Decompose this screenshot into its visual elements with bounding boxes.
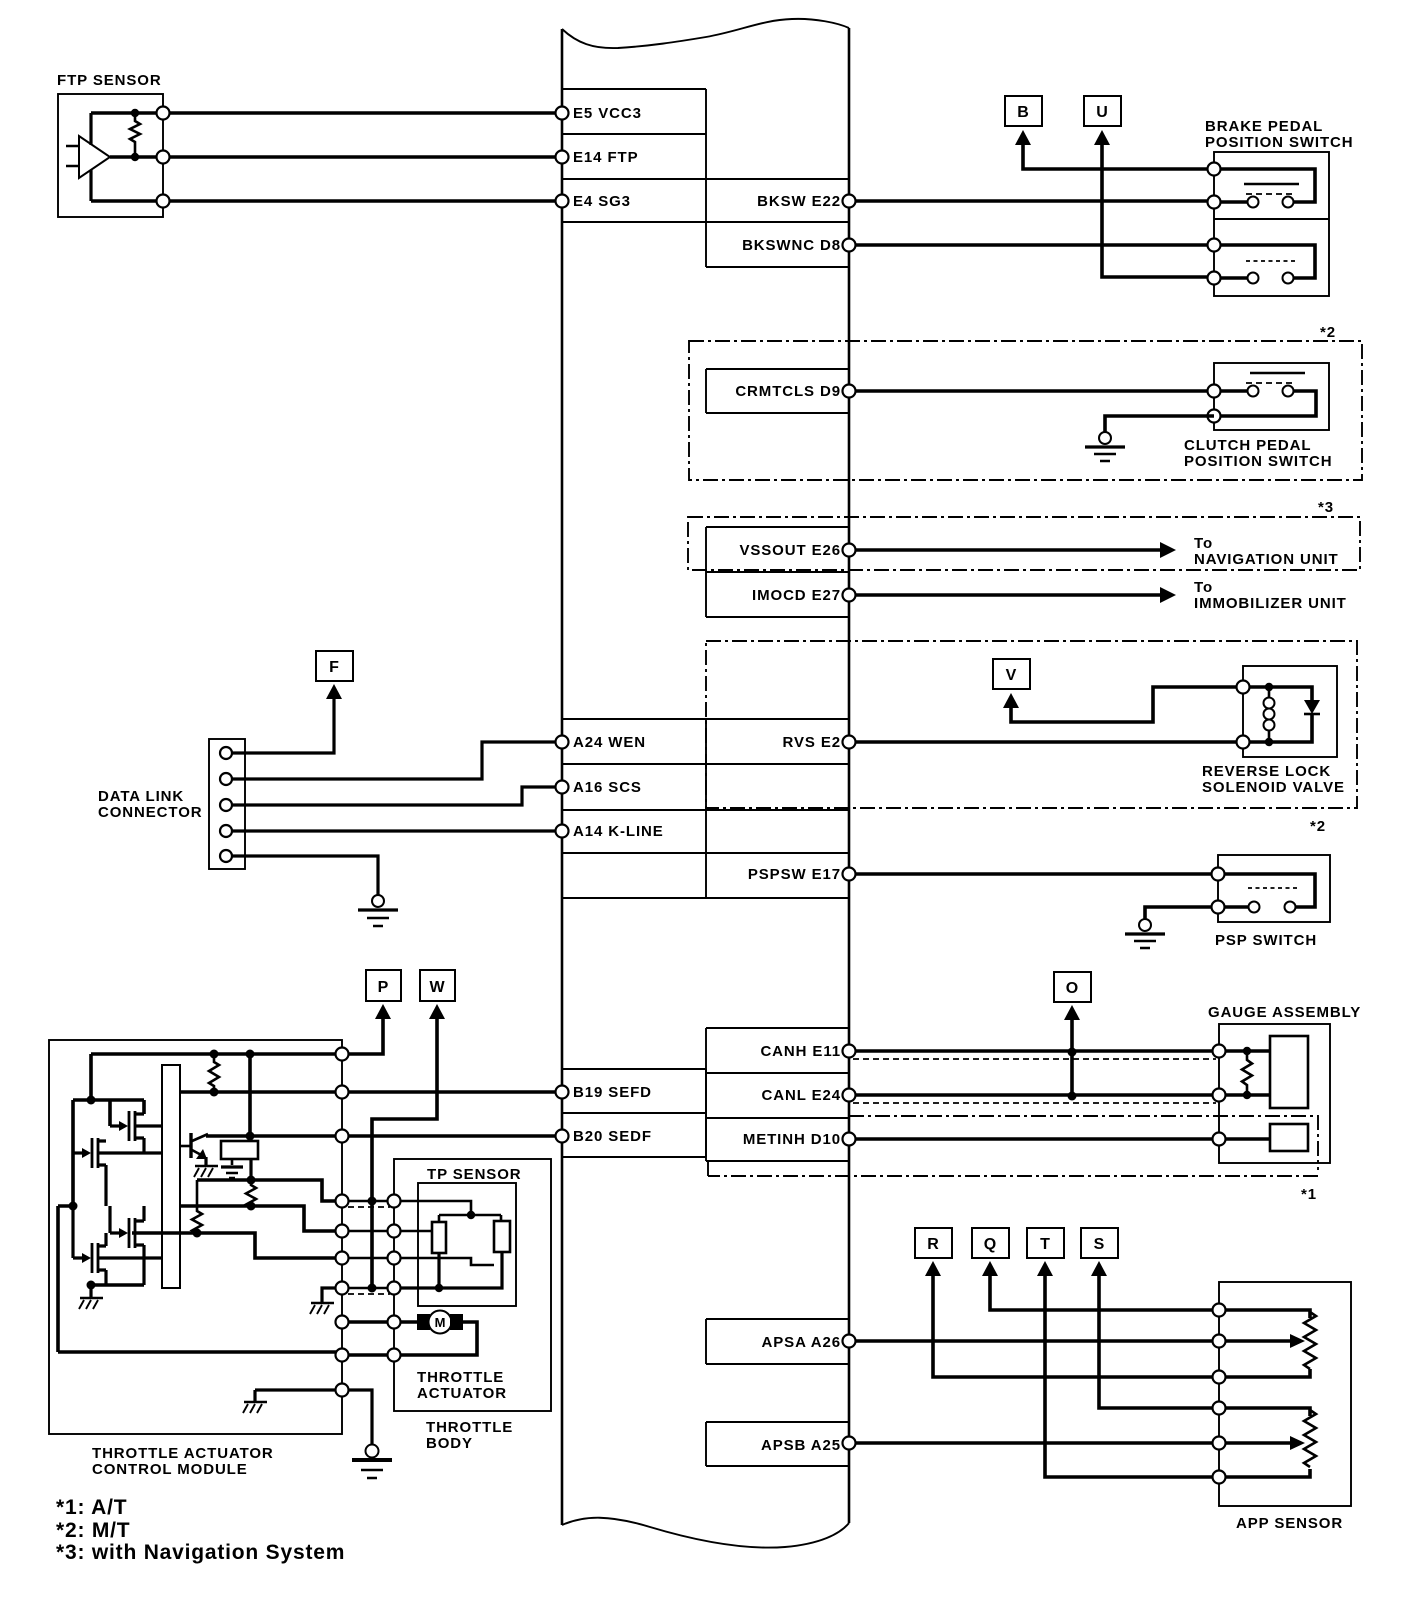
motor M1 throttle actuator: [394, 1311, 477, 1356]
transistor Q1: [191, 1133, 208, 1159]
svg-text:GAUGE ASSEMBLY: GAUGE ASSEMBLY: [1208, 1004, 1361, 1021]
svg-text:THROTTLE: THROTTLE: [426, 1419, 513, 1436]
svg-text:M: M: [435, 1315, 446, 1330]
svg-text:B19 SEFD: B19 SEFD: [573, 1084, 652, 1101]
svg-text:B: B: [1017, 104, 1029, 121]
ground main earth: [352, 1445, 392, 1479]
svg-text:*2: *2: [1310, 818, 1326, 835]
wire FTP: amp output to E14: [110, 155, 562, 159]
APP pot 1 track feed wires: [1219, 1310, 1310, 1377]
PSP switch contact circles: [1249, 902, 1260, 913]
terminal circle BKSWNC D8: [843, 239, 856, 252]
ground data link connector: [358, 895, 398, 926]
CANH pair dashed line: [853, 1058, 1216, 1060]
terminal circle A14 K-LINE: [556, 825, 569, 838]
svg-text:BKSW E22: BKSW E22: [757, 193, 841, 210]
svg-text:E4 SG3: E4 SG3: [573, 193, 631, 210]
clutch switch solid bar: [1250, 372, 1305, 375]
FTP amp bottom feed wire: [89, 170, 92, 201]
svg-text:IMMOBILIZER UNIT: IMMOBILIZER UNIT: [1194, 595, 1347, 612]
connector box P: [366, 970, 401, 1001]
wire DLC pin4 to A14 K-LINE: [226, 829, 562, 832]
APP sensor terminal circles: [1213, 1304, 1226, 1317]
terminal circle B20 SEDF: [556, 1130, 569, 1143]
terminal circle PSPSW E17: [843, 868, 856, 881]
wire module to TP row4: [342, 1287, 394, 1290]
wire CANL E24 to gauge: [849, 1093, 1219, 1097]
wire APSA A26 to APP sensor wiper 1: [849, 1339, 1219, 1343]
junction dot coil bottom: [1265, 738, 1273, 746]
TP wire row1 internal: [394, 1201, 501, 1222]
transistor M1 (FET): [110, 1111, 162, 1153]
svg-text:SOLENOID VALVE: SOLENOID VALVE: [1202, 779, 1345, 796]
svg-text:Q: Q: [984, 1236, 996, 1253]
gauge internal METINH wire: [1219, 1137, 1270, 1141]
wire APP pot2 low to T: [1045, 1275, 1219, 1477]
terminal circle BKSW E22: [843, 195, 856, 208]
FTP amp top feed wire: [89, 113, 92, 145]
svg-text:CONTROL MODULE: CONTROL MODULE: [92, 1461, 248, 1478]
svg-text:POSITION SWITCH: POSITION SWITCH: [1184, 453, 1333, 470]
wire APP pot1 low to R: [933, 1275, 1219, 1377]
ECM trunk bottom torn wavy edge: [562, 1518, 849, 1548]
wire W to TP sensor option rows: [372, 1018, 437, 1288]
module supply drop rail: [89, 1054, 93, 1100]
FTP internal resistor R: [130, 113, 140, 157]
transistor Q1 base wire: [180, 1145, 191, 1148]
terminal circle A16 SCS: [556, 781, 569, 794]
wire module to TP row3: [342, 1257, 394, 1260]
TP sensor box: [418, 1183, 516, 1306]
svg-text:*3: with Navigation System: *3: with Navigation System: [56, 1541, 345, 1564]
svg-text:*3: *3: [1318, 499, 1334, 516]
gauge assembly box: [1219, 1024, 1330, 1163]
svg-text:BRAKE PEDAL: BRAKE PEDAL: [1205, 118, 1323, 135]
arrow up to V: [1003, 693, 1019, 708]
FTP sensor amplifier triangle: [79, 136, 110, 178]
module terminal circles on right edge: [336, 1048, 349, 1061]
wire relay to TP row1 feed: [249, 1159, 252, 1180]
wire APP pot1 high to Q: [990, 1275, 1219, 1310]
solenoid terminal circles: [1237, 681, 1250, 694]
connector cell grid: E5/E14/E4 + BKSW/BKSWNC: [562, 89, 849, 267]
svg-text:CONNECTOR: CONNECTOR: [98, 804, 203, 821]
with-navigation dash-dot box: [688, 517, 1360, 570]
connector box R: [915, 1228, 952, 1258]
svg-text:APSB A25: APSB A25: [761, 1437, 841, 1454]
wire IMOCD to immobilizer unit: [849, 593, 1160, 597]
wire RVS E2 to solenoid: [849, 740, 1243, 744]
svg-text:*1: A/T: *1: A/T: [56, 1496, 127, 1519]
junction dot W tap row4: [368, 1284, 377, 1293]
terminal circle VSSOUT E26: [843, 544, 856, 557]
ground relay box: [221, 1167, 243, 1178]
TP wire row2 internal: [394, 1230, 432, 1233]
ECM trunk top torn wavy edge: [562, 19, 849, 48]
solenoid coil: [1268, 687, 1271, 697]
relay box ground stub: [231, 1159, 234, 1165]
module output node wire: [91, 1283, 144, 1287]
TP resistor element right: [494, 1221, 510, 1252]
data link connector box: [209, 739, 245, 869]
connector box B: [1005, 96, 1042, 126]
TP resistor element left: [432, 1222, 446, 1253]
upper brake switch internal link: [1214, 169, 1315, 202]
wire SG3: FTP sensor to E4: [91, 199, 562, 203]
PSP switch dotted contact line: [1248, 887, 1298, 889]
M/T option dash-dot box: [689, 341, 1362, 480]
terminal circle CRMTCLS D9: [843, 385, 856, 398]
wire clutch switch to ground: [1105, 416, 1214, 432]
connector box F: [316, 651, 353, 681]
MOSFET bridge left rails: [58, 1100, 144, 1352]
wire TP sensor feed row1: [197, 1180, 342, 1201]
upper switch dashed contact line: [1246, 193, 1296, 195]
connector box U: [1084, 96, 1121, 126]
brake switch terminal circles: [1208, 163, 1221, 176]
arrow up to U: [1094, 130, 1110, 145]
svg-text:F: F: [329, 659, 339, 676]
dashed option row4: [348, 1293, 390, 1295]
pin cell VSSOUT E26: [706, 527, 849, 617]
wire VSSOUT to navigation unit: [849, 548, 1160, 552]
chassis ground TP row4: [310, 1303, 334, 1314]
wire DLC pin1 to F: [226, 698, 334, 753]
terminal circle RVS E2: [843, 736, 856, 749]
svg-text:O: O: [1066, 980, 1078, 997]
throttle body box: [394, 1159, 551, 1411]
arrow up to B: [1015, 130, 1031, 145]
pin cells B19/B20: [562, 1069, 706, 1157]
wire TP row4 to chassis ground: [322, 1288, 342, 1302]
clutch switch contact circles: [1248, 386, 1259, 397]
terminal circle FTP sensor pin 1: [157, 107, 170, 120]
pin cell APSA A26: [706, 1319, 849, 1364]
module resistor R1: [209, 1054, 219, 1092]
wire Q1 emitter down: [204, 1157, 207, 1165]
lower switch dotted contact line: [1246, 260, 1296, 262]
wire module to motor -: [342, 1353, 394, 1357]
wire B19 SEFD module to ECM: [342, 1090, 562, 1094]
terminal circle E14: [556, 151, 569, 164]
svg-text:IMOCD E27: IMOCD E27: [752, 587, 841, 604]
module outer box: [49, 1040, 342, 1434]
svg-text:*2: M/T: *2: M/T: [56, 1519, 130, 1542]
clutch switch housing: [1214, 363, 1329, 430]
connector box O: [1054, 972, 1091, 1002]
dashed option row1: [348, 1206, 390, 1208]
TP wire row3 internal: [394, 1258, 494, 1265]
svg-text:B20 SEDF: B20 SEDF: [573, 1128, 652, 1145]
wire to connector U: [1102, 144, 1214, 277]
connector box T: [1027, 1228, 1064, 1258]
svg-text:To: To: [1194, 579, 1213, 596]
APP pot 1 wiper arrow: [1219, 1339, 1290, 1343]
svg-text:PSP SWITCH: PSP SWITCH: [1215, 932, 1317, 949]
connector box V: [993, 659, 1030, 689]
svg-text:E5 VCC3: E5 VCC3: [573, 105, 642, 122]
svg-text:APP SENSOR: APP SENSOR: [1236, 1515, 1343, 1532]
wire PSP switch to ground: [1145, 907, 1218, 919]
module resistor R2: [246, 1180, 256, 1208]
middle cell grid A24/A16/A14 + RVS/PSPSW: [562, 719, 849, 898]
svg-text:VSSOUT E26: VSSOUT E26: [739, 542, 841, 559]
wire module to TP row2: [342, 1230, 394, 1233]
terminal circle APSA A26: [843, 1335, 856, 1348]
svg-text:CANH E11: CANH E11: [760, 1043, 841, 1060]
svg-text:T: T: [1040, 1236, 1050, 1253]
terminal circle FTP sensor pin 2: [157, 151, 170, 164]
wire O tap into CAN bus: [1070, 1019, 1074, 1097]
connector box Q: [972, 1228, 1009, 1258]
APP sensor box: [1219, 1282, 1351, 1506]
svg-text:P: P: [378, 979, 389, 996]
terminal circle B19 SEFD: [556, 1086, 569, 1099]
gate bus bar strip: [162, 1065, 180, 1288]
PSP switch internal link: [1218, 874, 1315, 907]
ground clutch switch: [1085, 432, 1125, 461]
svg-text:CLUTCH PEDAL: CLUTCH PEDAL: [1184, 437, 1311, 454]
wire DLC pin5 to ground: [226, 856, 378, 895]
wire collector to B20 row: [206, 1134, 342, 1138]
wire APP pot2 high to S: [1099, 1275, 1219, 1408]
chassis ground Q1 emitter: [194, 1166, 218, 1177]
junction dot W tap row1: [368, 1197, 377, 1206]
wire BKSWNC D8 to switch: [849, 243, 1214, 247]
svg-text:CRMTCLS D9: CRMTCLS D9: [735, 383, 841, 400]
svg-text:ACTUATOR: ACTUATOR: [417, 1385, 507, 1402]
junction dot TP feed: [467, 1211, 475, 1219]
wire METINH D10 to gauge: [849, 1137, 1219, 1141]
svg-text:*2: *2: [1320, 324, 1336, 341]
PSP switch housing: [1218, 855, 1330, 922]
chassis ground M4: [79, 1298, 103, 1309]
brake switch housing: [1214, 152, 1329, 296]
svg-text:A14 K-LINE: A14 K-LINE: [573, 823, 664, 840]
gauge internal unit (meter inhibit): [1270, 1124, 1308, 1151]
svg-text:U: U: [1096, 104, 1108, 121]
pin cell APSB A25: [706, 1422, 849, 1466]
A/T option dash-dot lines (*1): [708, 1116, 1318, 1176]
terminal circle A24 WEN: [556, 736, 569, 749]
diode across solenoid: [1304, 700, 1320, 714]
wire to connector B: [1023, 144, 1214, 169]
ECM trunk right edge: [848, 28, 851, 1523]
lower switch contact circles: [1248, 273, 1259, 284]
wire BKSW E22 to switch: [849, 199, 1214, 203]
junction dot O-CANH: [1068, 1048, 1077, 1057]
svg-text:A16 SCS: A16 SCS: [573, 779, 642, 796]
APP potentiometer 2: [1304, 1410, 1316, 1467]
junction dot coil top: [1265, 683, 1273, 691]
svg-text:V: V: [1006, 667, 1017, 684]
module resistor R3: [192, 1180, 202, 1234]
svg-text:BKSWNC D8: BKSWNC D8: [742, 237, 841, 254]
throttle body terminal circles: [388, 1195, 401, 1208]
pin cells CANH/CANL/METINH: [706, 1028, 849, 1161]
TP wire row4 internal: [394, 1252, 502, 1288]
junction dot resistor top: [131, 109, 139, 117]
svg-text:TP SENSOR: TP SENSOR: [427, 1166, 522, 1183]
terminal circle CANH E11: [843, 1045, 856, 1058]
APP pot 2 wiper arrow: [1219, 1441, 1290, 1445]
upper switch contact circles: [1248, 197, 1259, 208]
svg-text:THROTTLE: THROTTLE: [417, 1369, 504, 1386]
arrow up to O: [1064, 1005, 1080, 1020]
connector box W: [420, 970, 455, 1001]
svg-text:THROTTLE ACTUATOR: THROTTLE ACTUATOR: [92, 1445, 274, 1462]
wire bus to driver collector: [248, 1054, 252, 1136]
relay coil box: [221, 1141, 258, 1159]
transistor M2 (FET): [73, 1138, 162, 1206]
APP potentiometer 1: [1304, 1312, 1316, 1369]
wire solenoid to connector V: [1011, 687, 1243, 722]
svg-text:A24 WEN: A24 WEN: [573, 734, 646, 751]
wire module to TP row1: [342, 1200, 394, 1203]
svg-text:METINH D10: METINH D10: [743, 1131, 841, 1148]
gauge internal CAN wires: [1219, 1051, 1270, 1095]
terminal circle E5: [556, 107, 569, 120]
PSP switch terminal circles: [1212, 868, 1225, 881]
wire PSPSW E17 to PSP switch: [849, 872, 1218, 876]
solenoid internal top wire: [1243, 687, 1312, 700]
M/T option dash-dot box: [706, 641, 1357, 808]
lower brake switch internal link: [1214, 245, 1315, 278]
terminal circle METINH D10: [843, 1133, 856, 1146]
junction dot O-CANL: [1068, 1092, 1077, 1101]
module internal B19 wire: [180, 1090, 342, 1094]
upper switch solid bar: [1244, 183, 1299, 186]
svg-text:CANL E24: CANL E24: [762, 1087, 841, 1104]
wire TP sense row2: [180, 1206, 342, 1231]
wire module supply to P: [342, 1018, 383, 1054]
terminal circle APSB A25: [843, 1437, 856, 1450]
svg-text:W: W: [429, 979, 445, 996]
wire DLC pin2 to A24 WEN: [226, 742, 562, 779]
svg-text:NAVIGATION UNIT: NAVIGATION UNIT: [1194, 551, 1339, 568]
CANL pair dashed line: [853, 1102, 1216, 1104]
terminal circle FTP sensor pin 3: [157, 195, 170, 208]
module ground row wire: [255, 1390, 372, 1445]
clutch switch terminal circles: [1208, 385, 1221, 398]
chassis ground module left: [243, 1390, 267, 1413]
transistor M4 (FET): [73, 1206, 162, 1285]
terminal circle CANL E24: [843, 1089, 856, 1102]
FTP amp input stubs: [66, 146, 79, 166]
terminal circle IMOCD E27: [843, 589, 856, 602]
svg-text:FTP SENSOR: FTP SENSOR: [57, 72, 162, 89]
ground PSP switch: [1125, 919, 1165, 948]
svg-text:R: R: [927, 1236, 939, 1253]
clutch switch internal link: [1214, 391, 1316, 416]
svg-text:S: S: [1094, 1236, 1105, 1253]
clutch switch dashed contact line: [1246, 382, 1296, 384]
FTP sensor box: [58, 94, 163, 217]
wire TP sense row3: [132, 1233, 342, 1258]
gauge terminal circles: [1213, 1045, 1226, 1058]
svg-text:RVS E2: RVS E2: [783, 734, 842, 751]
svg-text:To: To: [1194, 535, 1213, 552]
reverse lock solenoid valve box: [1243, 666, 1337, 757]
svg-text:BODY: BODY: [426, 1435, 473, 1452]
wire motor return row: [58, 1350, 342, 1354]
wire M4 source to ground: [89, 1285, 92, 1297]
wire CANH E11 to gauge: [849, 1049, 1219, 1053]
transistor M3 (FET): [110, 1206, 144, 1285]
wire B20 SEDF module to ECM: [342, 1134, 562, 1138]
junction dot supply rail: [87, 1096, 96, 1105]
APP pot 2 track feed wires: [1219, 1408, 1310, 1477]
wire CRMTCLS D9 to clutch switch: [849, 389, 1214, 393]
svg-text:REVERSE LOCK: REVERSE LOCK: [1202, 763, 1331, 780]
junction dot resistor bottom: [131, 153, 139, 161]
svg-text:PSPSW E17: PSPSW E17: [748, 866, 841, 883]
gauge terminating resistor: [1242, 1051, 1252, 1095]
svg-text:DATA LINK: DATA LINK: [98, 788, 184, 805]
gauge internal unit (CAN): [1270, 1036, 1308, 1108]
pin cell CRMTCLS D9: [706, 369, 849, 413]
connector box S: [1081, 1228, 1118, 1258]
ECM trunk left edge: [561, 29, 564, 1525]
module internal supply bus: [91, 1052, 342, 1056]
svg-text:APSA A26: APSA A26: [762, 1334, 841, 1351]
wire VCC3: FTP sensor to E5: [91, 111, 562, 115]
svg-text:E14 FTP: E14 FTP: [573, 149, 639, 166]
terminal circle E4: [556, 195, 569, 208]
DLC pin circles: [220, 747, 232, 759]
svg-text:*1: *1: [1301, 1186, 1317, 1203]
wire module to motor +: [342, 1320, 394, 1324]
solenoid internal bottom wire: [1243, 714, 1312, 742]
junction dot TP ground: [435, 1284, 443, 1292]
wire DLC pin3 to A16 SCS: [226, 787, 562, 805]
wire APSB A25 to APP sensor wiper 2: [849, 1441, 1219, 1445]
arrow up to F: [326, 684, 342, 699]
svg-text:POSITION SWITCH: POSITION SWITCH: [1205, 134, 1354, 151]
junction dots at resistor: [1243, 1047, 1251, 1055]
junction dot bus-collector feed: [246, 1050, 255, 1059]
